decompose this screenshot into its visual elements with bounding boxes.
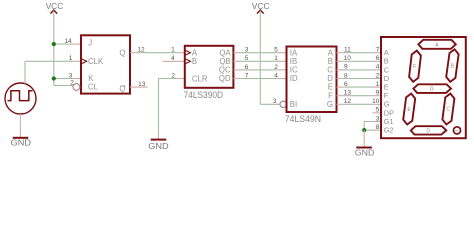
wire U3 B pin 10 to DIS1 pin 6 [337,55,382,62]
svg-text:E: E [407,107,411,113]
svg-text:1: 1 [69,55,73,62]
svg-text:C: C [446,107,450,113]
svg-text:9: 9 [344,64,348,71]
flip-flop U1 (JK) body [73,35,130,93]
svg-text:4: 4 [171,55,175,62]
svg-text:B: B [451,64,455,70]
wire DIS1 G1 pin 3 to GND3 [364,115,381,122]
junction node G2/GND [362,128,366,132]
wire tie G1-G2 vertical [363,122,365,131]
wire U2 QC pin 6 to U3 IC pin 2 [233,64,286,71]
svg-text:QD: QD [219,74,231,83]
wire DIS1 G2 pin 8 to GND3 [364,124,381,131]
segment D of DIS1 [411,126,447,134]
wire U3 D pin 8 to DIS1 pin 2 [337,72,382,79]
segment G of DIS1 [413,84,451,93]
svg-text:4: 4 [274,72,278,79]
svg-text:G: G [430,87,434,93]
svg-text:BI: BI [290,100,297,109]
clock source G1 [5,83,36,114]
wire U1 pin 3 (K) [54,72,81,79]
wire clock output to U1 CLK pin 1 [25,55,81,84]
svg-text:12: 12 [137,47,145,54]
svg-text:74LS49N: 74LS49N [285,114,321,124]
inversion bubble U1 CL [73,84,80,91]
svg-text:D: D [426,128,430,134]
svg-text:5: 5 [376,107,380,114]
stub U2 B pin 4 (unconnected) [163,55,185,62]
ground GND2 for CLR net [148,131,168,150]
svg-text:8: 8 [376,124,380,131]
svg-text:2: 2 [376,72,380,79]
svg-text:Q: Q [119,48,125,57]
wire U2 QD pin 7 to U3 ID pin 4 [233,72,286,79]
svg-text:G2: G2 [384,126,394,135]
svg-text:6: 6 [344,81,348,88]
supply symbol VCC (net to U1) [46,2,64,14]
svg-text:1: 1 [274,55,278,62]
svg-text:13: 13 [344,90,352,97]
clock triangle at U2 B [186,59,191,64]
svg-text:5: 5 [245,55,249,62]
stub U1 Qbar pin 13 (unconnected) [130,81,148,88]
display DIS1 7-segment body [381,37,466,138]
svg-text:12: 12 [344,98,352,105]
svg-text:CLK: CLK [88,57,104,66]
svg-text:ID: ID [290,74,298,83]
svg-text:CL: CL [88,82,99,91]
svg-text:8: 8 [344,72,348,79]
svg-text:9: 9 [376,90,380,97]
decoder U3 74LS49N body [285,47,337,125]
svg-text:7: 7 [376,47,380,54]
svg-text:GND: GND [148,141,168,151]
svg-text:CLR: CLR [192,74,208,83]
wire U3 C pin 9 to DIS1 pin 4 [337,64,382,71]
svg-text:6: 6 [245,64,249,71]
wire U1 pin 2 (CL) to bubble [54,80,74,87]
clock triangle at U1 CLK [82,59,87,64]
svg-text:4: 4 [376,64,380,71]
segment B of DIS1 [446,49,458,82]
wire U2 CLR pin 2 to GND2 [159,72,185,131]
wire U2 QB pin 5 to U3 IB pin 1 [233,55,286,62]
svg-text:J: J [88,39,92,48]
segment DP of DIS1 [453,127,460,134]
svg-text:3: 3 [273,98,277,105]
clock triangle at U2 A [186,50,191,55]
wire U3 A pin 11 to DIS1 pin 7 [337,47,382,54]
stub DIS1 DP pin 5 (unconnected) [372,107,381,114]
svg-text:GND: GND [355,147,375,157]
wire U1 pin 14 [54,38,81,45]
svg-text:DP: DP [455,129,459,133]
wire U3 G pin 12 to DIS1 pin 10 [337,98,382,105]
segment A of DIS1 [418,40,455,49]
wire U1 Q pin 12 to U2 A pin 1 [130,47,185,54]
svg-text:B: B [192,57,197,66]
svg-text:GND: GND [11,137,31,147]
wire U3 F pin 13 to DIS1 pin 9 [337,90,382,97]
counter U2 74LS390D body [184,46,234,100]
ground GND1 below clock source [11,114,31,147]
svg-text:5: 5 [274,47,278,54]
svg-text:1: 1 [171,47,175,54]
svg-text:3: 3 [69,72,73,79]
svg-text:7: 7 [245,72,249,79]
svg-text:13: 13 [138,81,146,88]
svg-text:6: 6 [376,55,380,62]
svg-text:VCC: VCC [46,2,64,11]
segment C of DIS1 [442,94,454,125]
wire U3 E pin 6 to DIS1 pin 1 [337,81,382,88]
svg-text:11: 11 [344,47,351,54]
wire U2 QA pin 3 to U3 IA pin 5 [233,47,286,54]
svg-text:F: F [413,64,416,70]
svg-text:2: 2 [171,72,175,79]
svg-text:14: 14 [64,38,72,45]
svg-text:10: 10 [372,98,380,105]
svg-text:A: A [435,42,439,48]
junction node VCC/pin3 [52,76,56,80]
svg-text:G: G [327,100,333,109]
svg-text:2: 2 [274,64,278,71]
segment F of DIS1 [409,51,421,82]
inversion bubble U3 BI [280,101,286,107]
svg-text:10: 10 [344,55,352,62]
ground GND3 for display commons [355,130,375,157]
svg-text:1: 1 [376,81,380,88]
svg-text:3: 3 [245,47,249,54]
svg-text:3: 3 [376,115,380,122]
supply symbol VCC2 (net to U3 BI) [252,2,270,14]
wire VCC2 to U3 BI pin 3 [260,11,286,108]
svg-text:74LS390D: 74LS390D [184,90,224,100]
segment E of DIS1 [403,94,415,125]
wire VCC vertical to U1 pins [53,11,55,86]
junction node VCC/pin14 [52,42,56,46]
